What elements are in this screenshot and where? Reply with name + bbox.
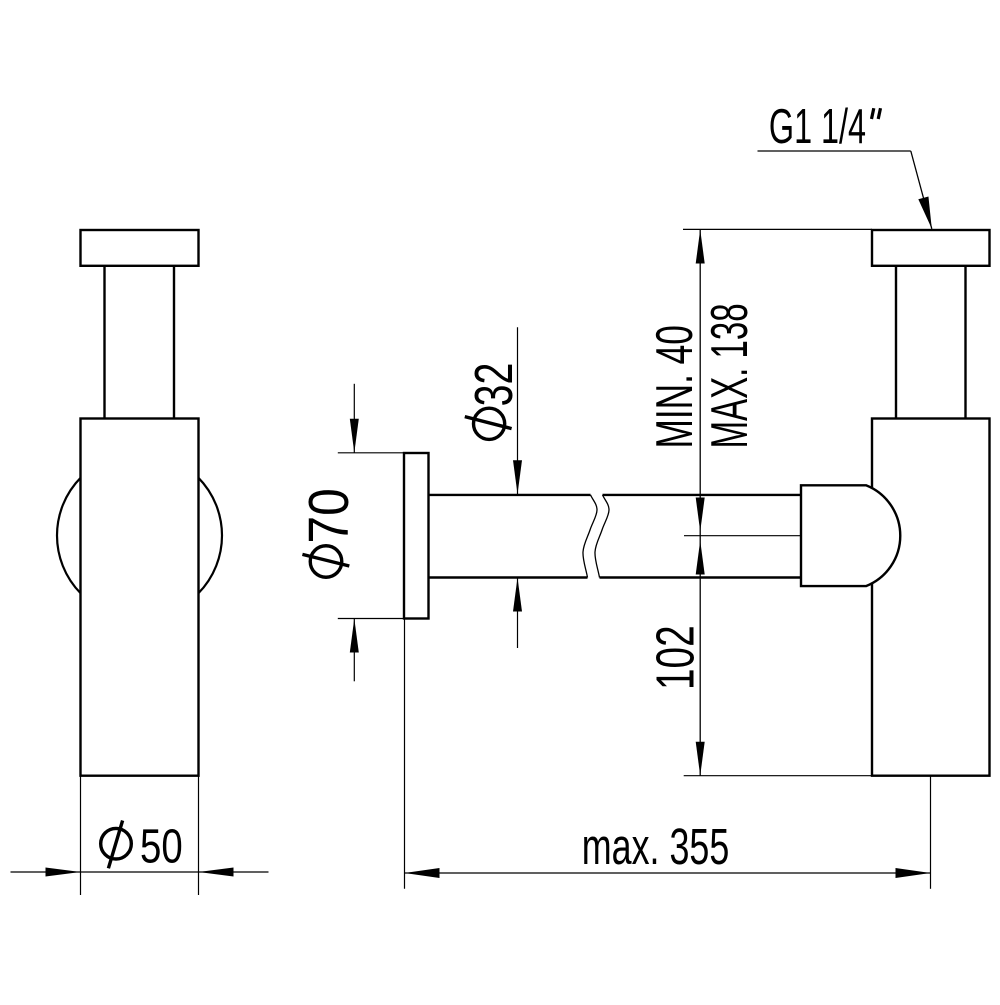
svg-text:70: 70 [298, 488, 361, 543]
svg-text:max. 355: max. 355 [582, 819, 729, 876]
svg-text:MAX. 138: MAX. 138 [702, 303, 759, 448]
svg-text:50: 50 [140, 821, 183, 874]
svg-text:MIN. 40: MIN. 40 [647, 325, 704, 448]
svg-text:102: 102 [645, 625, 705, 690]
svg-text:32: 32 [463, 363, 524, 407]
svg-text:G1 1/4: G1 1/4 [769, 98, 866, 154]
